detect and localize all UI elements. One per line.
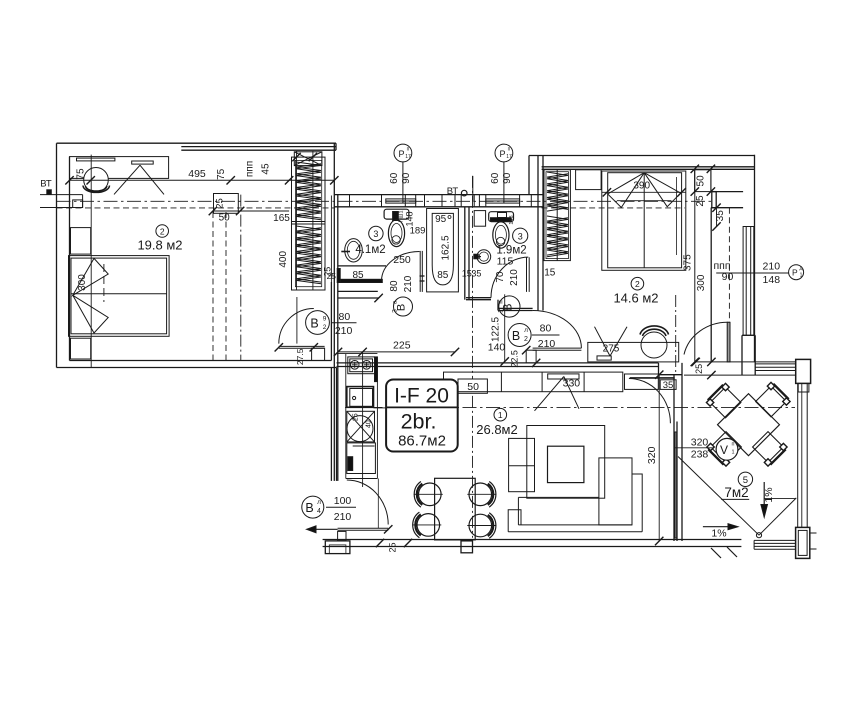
terrace rail right a (797, 383, 799, 527)
nightstand b2 right (695, 170, 711, 192)
svg-text:4: 4 (317, 508, 321, 515)
svg-text:Р: Р (792, 268, 798, 278)
svg-text:95: 95 (435, 214, 447, 225)
entry arrow (309, 528, 338, 530)
wall bath band bottom (334, 206, 543, 208)
dresser V (595, 327, 611, 356)
svg-text:I-F 20: I-F 20 (394, 385, 449, 408)
dash seg bed1 (103, 264, 105, 302)
bed1 (69, 256, 170, 337)
wall pier below window (741, 335, 743, 375)
wardrobe1 top box (294, 152, 322, 166)
wc2 bowl (493, 222, 509, 248)
door Bl2 leaf (533, 347, 582, 349)
svg-text:л: л (524, 327, 528, 334)
kitchen left wall gap line (345, 354, 347, 479)
rug (527, 426, 605, 499)
svg-text:189: 189 (410, 226, 426, 237)
wall bath1 bottom fill (340, 279, 383, 282)
svg-text:40: 40 (366, 420, 373, 428)
washbasin2 (477, 250, 491, 264)
room1 circle (494, 408, 507, 421)
unit label box (386, 380, 458, 452)
svg-text:3: 3 (392, 309, 399, 313)
door Bl2 dim (532, 334, 560, 336)
svg-text:140: 140 (488, 342, 506, 354)
svg-text:25: 25 (353, 413, 360, 421)
svg-text:25: 25 (327, 271, 337, 281)
wall bottom inner (323, 539, 742, 541)
dining chair 4 (469, 514, 492, 537)
window bedroom2 east (743, 227, 754, 336)
svg-text:210: 210 (334, 511, 352, 523)
svg-text:162.5: 162.5 (441, 235, 452, 260)
riser P17 a (394, 144, 412, 162)
door niche leaf (727, 322, 730, 362)
door B9/2 circle (306, 311, 330, 335)
wall bedroom2 left a (537, 156, 539, 311)
door B4 leaf (338, 527, 389, 529)
terrace rail top a (696, 361, 796, 363)
svg-text:85: 85 (352, 270, 364, 281)
shelf V lines (114, 165, 140, 194)
circle 3 wc (513, 228, 528, 243)
nightstand b1 bottom (71, 338, 91, 359)
dashed h2 (542, 207, 685, 209)
wall tub right (464, 207, 466, 300)
door B3 leaf (419, 251, 421, 292)
door Bp1 circle (498, 296, 521, 317)
dining chair 1 (419, 483, 442, 506)
kitchen lower unit (347, 443, 376, 474)
wardrobe1 hatch upper (296, 162, 321, 220)
svg-text:В: В (305, 501, 313, 515)
svg-text:90: 90 (401, 172, 412, 184)
door niche arc (684, 322, 729, 354)
svg-text:19.8 м2: 19.8 м2 (137, 238, 182, 253)
room2 circle (156, 225, 169, 238)
wall bottom outer (323, 546, 742, 548)
svg-text:27.5: 27.5 (295, 348, 305, 365)
svg-text:85: 85 (437, 270, 449, 281)
terrace chair SW (711, 432, 742, 463)
band jambs (349, 195, 351, 207)
kitchen stove (348, 357, 375, 374)
svg-text:122.5: 122.5 (490, 317, 501, 342)
cabinet small rect (548, 374, 579, 379)
kitchen counter line (374, 407, 387, 409)
svg-text:ппп: ппп (245, 161, 256, 177)
room2b circle (631, 277, 644, 290)
washbasin1 tap (341, 251, 350, 253)
sofa outer bottom (508, 531, 642, 533)
door B4 dim (326, 506, 356, 508)
wall bath1 bottom line (338, 265, 386, 267)
door B4 arc (347, 480, 388, 525)
wc1 cistern (384, 209, 409, 219)
svg-text:75: 75 (216, 168, 227, 180)
dashdot axis h (57, 200, 712, 202)
cabinet row (444, 372, 623, 392)
svg-text:Р: Р (499, 149, 505, 159)
door B9/2 arc (279, 309, 314, 344)
cabinet 50 box (458, 379, 487, 393)
vent V1 circle (716, 438, 738, 460)
svg-text:9: 9 (323, 316, 327, 323)
wall bedroom1 left inner (69, 157, 71, 361)
window strip living right (675, 432, 677, 538)
dim 35 niche (716, 208, 718, 227)
door B9/2 dim (331, 322, 356, 324)
svg-text:75: 75 (75, 168, 86, 180)
svg-text:2: 2 (160, 226, 165, 236)
terrace bottom stub (809, 532, 816, 534)
riser stem b (503, 162, 505, 203)
svg-text:25: 25 (694, 364, 704, 374)
wardrobe2 (544, 170, 570, 261)
vent box wc (474, 211, 485, 227)
svg-text:14.6 м2: 14.6 м2 (613, 291, 658, 306)
dashed v1 (212, 212, 214, 361)
wall overhang end (335, 143, 337, 150)
dresser b2 (588, 342, 679, 362)
wardrobe1 hatch lower (296, 226, 321, 284)
nightstand b1 top (71, 228, 91, 255)
riser Pd1 (789, 265, 804, 280)
terrace chair NW (710, 387, 741, 418)
svg-text:148: 148 (405, 211, 415, 226)
kitchen fridge (347, 411, 375, 442)
svg-text:165: 165 (273, 213, 290, 224)
terrace rail top b (755, 363, 796, 365)
wall living right inner (673, 375, 675, 541)
wall wc south (466, 297, 491, 299)
dining chair 2 (469, 483, 492, 506)
svg-text:ВТ: ВТ (447, 186, 459, 197)
wall living top a (337, 362, 659, 364)
wall bedroom2 left b (542, 156, 544, 311)
svg-text:В: В (512, 329, 520, 343)
ext line v1 (90, 155, 92, 367)
sofa seat front (518, 496, 599, 498)
svg-text:17: 17 (506, 154, 512, 160)
svg-text:25: 25 (695, 195, 706, 207)
box 25 (214, 194, 239, 214)
door B9/2 sill (279, 345, 325, 347)
wall bedroom1 top (57, 142, 337, 144)
svg-text:п: п (732, 442, 735, 448)
svg-text:400: 400 (278, 251, 289, 268)
wall segment right of wardrobe (330, 282, 332, 361)
terrace post top (796, 359, 811, 383)
dining chair 3 (417, 514, 440, 537)
wall bottom left block (325, 541, 350, 554)
door B3 circle (392, 297, 413, 316)
svg-text:70: 70 (495, 271, 506, 283)
wall bedroom2 top step (528, 156, 530, 195)
dashdot v hall (472, 176, 474, 538)
cabinet V (535, 377, 564, 411)
sofa seat bottom (518, 524, 632, 526)
wall living top b (337, 366, 659, 368)
wall living left inner (336, 368, 338, 481)
svg-text:50: 50 (219, 213, 231, 224)
svg-text:ВТ: ВТ (40, 179, 52, 190)
dashdot v1 (240, 195, 242, 361)
wall bottom breaks (711, 548, 721, 558)
wall bedroom1 left outer (56, 143, 58, 367)
lamp arc (83, 186, 110, 193)
wall overhang band bottom (181, 149, 336, 151)
svg-text:1: 1 (731, 450, 734, 456)
dim 50 165 (213, 210, 289, 212)
svg-text:2: 2 (635, 279, 640, 289)
wall bedroom2 right outer (754, 155, 756, 362)
svg-text:45: 45 (261, 163, 272, 175)
dim 225 (338, 351, 455, 353)
entry stub lines (40, 194, 83, 196)
door Bp1 leaf (526, 257, 528, 292)
wall bottom column box (461, 541, 473, 553)
svg-text:15: 15 (462, 269, 472, 279)
tub inner (432, 213, 453, 285)
door B9/2 ticks (275, 343, 283, 351)
chair b2 circle (641, 332, 667, 358)
svg-text:300: 300 (696, 274, 707, 291)
svg-text:1%: 1% (763, 487, 775, 502)
wall bedroom1 right (333, 143, 335, 481)
dashdot v living wall (675, 295, 677, 375)
wall living left outer (330, 368, 332, 481)
wall hall nw (338, 290, 378, 292)
slope arrow down (763, 482, 765, 507)
wall segment extend (330, 196, 332, 283)
dim line 390 (602, 191, 686, 193)
sofa chaise (599, 458, 632, 525)
dim v hall (504, 294, 506, 361)
svg-text:17: 17 (405, 154, 411, 160)
armchair left (509, 438, 535, 491)
wc2 cistern (489, 212, 514, 222)
svg-text:25: 25 (388, 542, 398, 552)
svg-text:60: 60 (389, 172, 400, 184)
bed1 pillow fan (73, 258, 108, 333)
svg-text:2br.: 2br. (401, 410, 437, 434)
bed2 pillows (608, 173, 681, 208)
svg-text:7м2: 7м2 (724, 485, 748, 500)
svg-text:1%: 1% (711, 528, 726, 540)
door B4 circle (302, 496, 324, 518)
svg-text:В: В (310, 317, 318, 331)
svg-text:210: 210 (763, 261, 781, 273)
lamp circle (84, 168, 109, 193)
wc1 bowl (388, 220, 404, 247)
ext v kitchen (362, 352, 364, 487)
box 35 living (660, 380, 676, 390)
wardrobe2 hatch lower (547, 216, 568, 257)
dining table (435, 478, 476, 540)
svg-text:80: 80 (339, 311, 351, 323)
svg-text:86.7м2: 86.7м2 (398, 433, 446, 450)
kitchen right edge (376, 357, 378, 479)
terrace rail top c (684, 374, 796, 376)
kitchen top line (337, 353, 378, 355)
wall bathroom left inner (337, 195, 339, 481)
dashed v niche (728, 208, 730, 336)
band duct a (386, 199, 416, 203)
terrace bottom rail (754, 539, 796, 541)
door B9/2 pier (312, 348, 325, 360)
left wall jamb box (73, 200, 83, 208)
svg-text:п: п (407, 147, 410, 153)
wall bath band top (334, 194, 543, 196)
dashed v2 (225, 212, 227, 361)
svg-text:300: 300 (77, 274, 88, 291)
room5 circle (738, 472, 752, 486)
svg-text:26.8м2: 26.8м2 (476, 422, 517, 437)
cabinet small (625, 374, 659, 389)
svg-text:148: 148 (509, 215, 515, 224)
riser stem a (402, 162, 404, 203)
svg-text:2: 2 (524, 336, 528, 343)
wall living top step (658, 363, 660, 375)
svg-text:495: 495 (188, 168, 206, 180)
svg-text:15: 15 (544, 268, 556, 279)
door Bl2 arc (533, 311, 582, 349)
kitchen bottom (346, 478, 378, 480)
svg-text:210: 210 (509, 269, 520, 286)
wall bedroom2 top outer (529, 155, 755, 157)
door Bl2 circle (508, 324, 531, 347)
svg-text:п: п (508, 147, 511, 153)
terrace chair NE (756, 386, 787, 417)
shelf bedroom1 (70, 157, 169, 179)
dim line 495 (70, 179, 335, 181)
sofa outer right (632, 474, 642, 532)
wall niche north (711, 191, 743, 193)
terrace rail right b (806, 383, 808, 527)
svg-text:148: 148 (763, 274, 781, 286)
svg-text:д: д (800, 266, 803, 272)
svg-text:390: 390 (633, 181, 650, 192)
svg-text:210: 210 (538, 338, 556, 350)
svg-text:320: 320 (646, 446, 658, 464)
kitchen burners (350, 361, 359, 370)
svg-text:320: 320 (691, 436, 709, 448)
svg-text:80: 80 (389, 280, 400, 292)
nightstand b2 left (576, 170, 602, 190)
wall bedroom1 bottom outer (57, 367, 337, 369)
chair b2 arc (640, 326, 669, 336)
wall piece B3 east (420, 275, 425, 277)
terrace drain diag b (759, 498, 796, 535)
wall living right outer (681, 363, 683, 541)
terrace table (718, 394, 780, 456)
wall hall ne (498, 307, 533, 309)
tub outer (427, 209, 459, 292)
wardrobe2 hatch upper (547, 172, 568, 209)
svg-text:375: 375 (682, 254, 693, 271)
svg-text:п: п (499, 300, 505, 303)
svg-text:V: V (720, 443, 728, 457)
svg-text:1: 1 (800, 273, 803, 279)
svg-text:80: 80 (540, 323, 552, 335)
dim line Pd1 (716, 272, 788, 274)
svg-text:л: л (317, 499, 321, 506)
svg-text:3: 3 (518, 231, 523, 241)
ext line bed2 (676, 177, 678, 255)
svg-text:4.1м2: 4.1м2 (355, 244, 385, 256)
door Bp1 arc (491, 257, 528, 298)
dashdot axis living (345, 406, 795, 408)
svg-text:50: 50 (696, 175, 707, 187)
door Bl2 pier (526, 350, 536, 363)
washbasin1 (345, 239, 363, 262)
dashed h1 (57, 207, 335, 209)
svg-text:100: 100 (334, 495, 352, 507)
svg-text:22.5: 22.5 (510, 350, 520, 368)
svg-text:210: 210 (335, 325, 353, 337)
kitchen edge strip (375, 357, 378, 382)
wall bedroom2 top inner (542, 166, 755, 168)
wall overhang band top (181, 146, 336, 148)
svg-text:3: 3 (373, 229, 378, 239)
band duct b (486, 199, 520, 203)
kitchen sink (347, 387, 374, 408)
wall niche west (710, 208, 712, 362)
door B9/2 leaf v (296, 297, 298, 344)
svg-text:210: 210 (403, 275, 414, 292)
terrace post bottom (796, 527, 810, 558)
circle 3 bath1 (369, 226, 383, 240)
svg-text:35: 35 (663, 380, 674, 391)
BT circle mid (461, 190, 467, 196)
door B4 jamb rect (338, 531, 346, 540)
svg-text:2: 2 (323, 324, 327, 331)
door terrace arc (629, 379, 671, 424)
bed2 (602, 171, 686, 270)
svg-text:90: 90 (502, 172, 513, 184)
svg-text:225: 225 (393, 339, 411, 351)
svg-text:Р: Р (398, 149, 404, 159)
svg-text:50: 50 (467, 381, 479, 393)
stub v mid (472, 176, 474, 202)
svg-text:1: 1 (498, 410, 503, 420)
door B3 arc (382, 252, 420, 282)
sofa left end (508, 510, 521, 532)
terrace drain circle (756, 533, 761, 538)
BT square (47, 190, 52, 195)
riser P17 b (495, 144, 513, 162)
terrace chair SE (753, 432, 784, 463)
coffee table (548, 446, 584, 482)
dim v 50 (710, 169, 712, 192)
dim v 320 living (658, 375, 660, 541)
slope arrow right (703, 526, 731, 528)
wall bedroom1 bottom inner (70, 360, 332, 362)
wardrobe1 (292, 157, 326, 290)
svg-text:275: 275 (603, 343, 620, 354)
dim v 375 300 (694, 169, 696, 362)
svg-text:250: 250 (393, 254, 411, 266)
wardrobe1 ext lines (296, 151, 298, 290)
svg-text:238: 238 (691, 448, 709, 460)
terrace drain diag a (678, 457, 759, 536)
svg-text:60: 60 (490, 172, 501, 184)
